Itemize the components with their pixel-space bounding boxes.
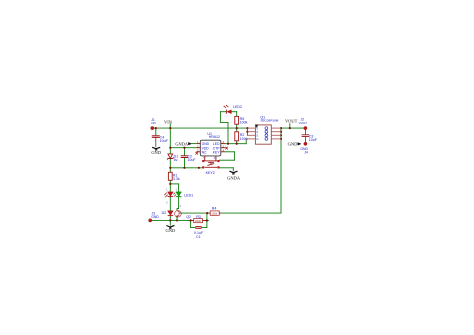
svg-text:D2: D2 [162,211,167,215]
svg-text:3.3k: 3.3k [173,177,180,181]
svg-text:LED2: LED2 [233,105,242,109]
svg-text:100k: 100k [240,120,248,124]
svg-text:SEC09P30M: SEC09P30M [260,119,278,123]
svg-text:100k: 100k [211,211,217,215]
svg-text:VOUT: VOUT [285,119,298,124]
svg-text:GND: GND [166,228,176,233]
svg-text:R4: R4 [212,207,217,211]
svg-text:GNDA: GNDA [227,175,241,180]
svg-text:VOUT: VOUT [299,121,308,125]
svg-text:NC: NC [202,150,207,154]
svg-text:Q2: Q2 [186,215,191,219]
svg-text:5v: 5v [174,158,178,162]
svg-text:VIN: VIN [151,121,156,125]
svg-text:10uF: 10uF [160,139,169,143]
svg-text:10uF: 10uF [187,158,196,162]
svg-text:GND: GND [288,142,298,147]
svg-text:GND: GND [151,215,159,219]
svg-text:HR612: HR612 [209,135,220,139]
svg-text:VIN: VIN [164,119,173,124]
svg-text:R3: R3 [196,215,201,219]
svg-text:100R: 100R [195,219,201,223]
svg-text:LED1: LED1 [184,194,193,198]
svg-text:KEY: KEY [213,150,221,154]
svg-text:10uF: 10uF [309,138,318,142]
svg-text:KEY2: KEY2 [206,171,215,175]
svg-text:GNDA: GNDA [175,141,189,146]
svg-text:C1: C1 [196,235,201,239]
svg-text:J4: J4 [304,151,308,155]
svg-text:GND: GND [151,150,161,155]
